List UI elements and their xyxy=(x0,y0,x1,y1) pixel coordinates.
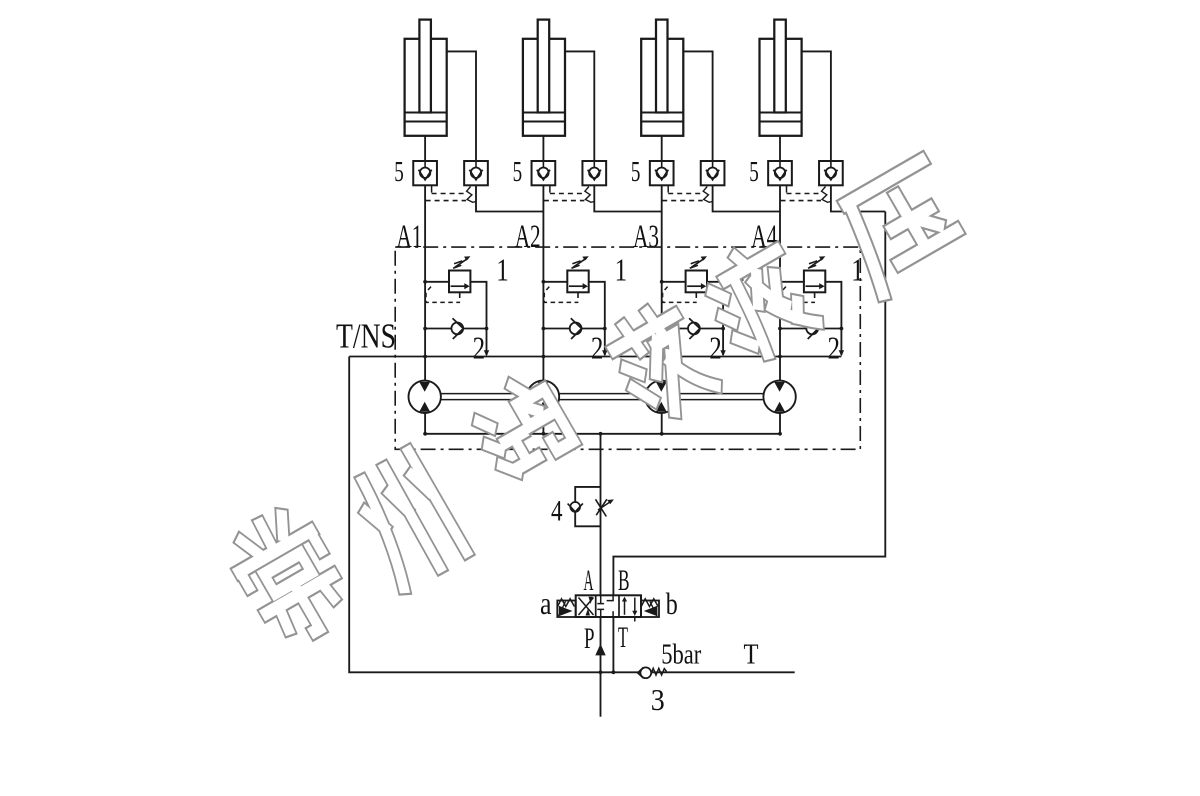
motor M4 xyxy=(763,381,795,413)
junction dot bottom line (group 4) xyxy=(778,432,782,436)
cylinder CY2 body xyxy=(523,39,565,136)
wire: check valve 2 line (group 1) xyxy=(425,328,486,330)
relief valve 1 (group 3) adjustment spring arrow xyxy=(690,265,698,268)
wire: CY1 rod-side tap right and down xyxy=(447,51,476,161)
svg-text:T: T xyxy=(618,621,628,654)
wire: relief valve inlet (group 2) xyxy=(543,281,567,283)
svg-text:A1: A1 xyxy=(396,219,422,255)
junction dots check line (group 2) xyxy=(542,327,546,331)
wire: CY3 bottom port down xyxy=(661,136,663,161)
svg-text:5: 5 xyxy=(513,156,523,188)
wire: A4 line down from left check valve xyxy=(779,185,781,380)
relief valve 1 (group 1) internal arrow xyxy=(451,285,465,287)
junction dot P crossing xyxy=(599,670,603,674)
wire: P line with pump arrow xyxy=(600,617,602,717)
pilot dashed lines between check valves (group 3) xyxy=(667,185,669,192)
junction dot bottom line (group 1) xyxy=(423,432,427,436)
directional valve middle cell blocked ports xyxy=(597,596,604,604)
check valve 5 left box (group 2) xyxy=(532,161,556,185)
wire: motor M3 bottom xyxy=(661,413,663,434)
backpressure valve 3 xyxy=(640,667,651,678)
directional valve dividers xyxy=(595,595,597,617)
svg-text:2: 2 xyxy=(709,329,722,365)
check valve 5 left box (group 4) xyxy=(768,161,792,185)
relief valve 1 (group 3) pilot dashed line xyxy=(663,287,697,303)
svg-text:B: B xyxy=(618,564,630,597)
cylinder CY4 body xyxy=(760,39,802,136)
wire: T line from valve to tank bus xyxy=(612,617,614,673)
wire: CY1 bottom port down xyxy=(424,136,426,161)
directional valve right cell arrows xyxy=(624,600,626,615)
wire: group 1 right check valve down and right to A2 line xyxy=(476,185,543,211)
arrow: right vertical into bus (group 4) xyxy=(839,350,844,356)
relief valve 1 (group 1) box xyxy=(449,271,470,293)
cylinder CY1 body xyxy=(405,39,447,136)
boundary dash-dot box xyxy=(395,247,860,449)
cylinder CY3 body xyxy=(641,39,683,136)
wire: relief valve inlet (group 4) xyxy=(780,281,804,283)
svg-text:5bar: 5bar xyxy=(661,639,701,671)
svg-text:P: P xyxy=(584,622,595,655)
wire: motor bottom common line xyxy=(425,433,780,435)
svg-text:1: 1 xyxy=(615,252,628,288)
relief valve 1 (group 2) drain stub xyxy=(577,292,579,298)
valve 4 bypass loop xyxy=(575,487,600,526)
arrow: right vertical into bus (group 3) xyxy=(720,350,725,356)
check valve 2 (group 4) xyxy=(806,323,818,335)
relief valve 1 (group 3) box xyxy=(686,271,707,293)
junction dot center outlet xyxy=(599,432,603,436)
svg-text:5: 5 xyxy=(394,156,404,188)
directional valve left cell crossed arrows xyxy=(579,598,594,616)
cylinder CY3 piston lines xyxy=(641,112,683,114)
junction dot bus (group 2) xyxy=(542,355,546,359)
arrow: right vertical into bus (group 1) xyxy=(484,350,489,356)
check valve 2 (group 3) xyxy=(688,323,700,335)
watermark character ci 茨 xyxy=(605,302,717,424)
junction dots check line (group 4) xyxy=(778,327,782,331)
relief valve 1 (group 4) pilot dashed line xyxy=(781,287,815,303)
pilot dashed lines between check valves (group 4) xyxy=(786,185,788,192)
svg-text:1: 1 xyxy=(851,252,864,288)
junction dot bottom line (group 2) xyxy=(542,432,546,436)
svg-text:a: a xyxy=(540,585,552,621)
check valve 5 right box (group 2) xyxy=(582,161,606,185)
svg-text:3: 3 xyxy=(651,682,665,717)
relief valve 1 (group 4) drain stub xyxy=(814,292,816,298)
cylinder CY4 rod xyxy=(774,20,786,113)
relief valve 1 (group 2) box xyxy=(567,271,588,293)
svg-text:T/NS: T/NS xyxy=(336,316,396,355)
wire: A1 line down from left check valve xyxy=(424,185,426,380)
relief valve 1 (group 2) pilot dashed line xyxy=(544,287,578,303)
wire: CY3 rod-side tap right and down xyxy=(683,51,712,161)
pilot dashed lines between check valves (group 1) xyxy=(431,185,433,192)
wire: CY4 rod-side tap right and down xyxy=(802,51,831,161)
cylinder CY1 rod xyxy=(419,20,431,113)
wire: center line from motors down to valve 4 and valve A port xyxy=(600,434,602,597)
wire: check valve 2 line (group 4) xyxy=(780,328,841,330)
svg-text:2: 2 xyxy=(828,329,841,365)
wire: CY2 bottom port down xyxy=(542,136,544,161)
check valve 2 (group 2) xyxy=(570,323,582,335)
wire: check valve 2 line (group 2) xyxy=(543,328,604,330)
svg-text:5: 5 xyxy=(749,156,759,188)
relief valve 1 (group 3) drain stub xyxy=(695,292,697,298)
svg-text:4: 4 xyxy=(551,494,563,527)
wire: T/NS bus line xyxy=(349,356,841,358)
svg-text:1: 1 xyxy=(496,252,509,288)
junction dot T joining xyxy=(612,670,616,674)
svg-text:T: T xyxy=(744,639,759,671)
relief valve 1 (group 1) drain stub xyxy=(459,292,461,298)
svg-text:A: A xyxy=(584,564,594,597)
junction dot bus (group 4) xyxy=(778,355,782,359)
cylinder CY4 piston lines xyxy=(760,112,802,114)
junction dots check line (group 3) xyxy=(660,327,664,331)
watermark character zhou 州 xyxy=(346,452,466,587)
check valve 5 right box (group 3) xyxy=(701,161,725,185)
check valve 5 left box (group 1) xyxy=(413,161,437,185)
wire: group 4 right check valve down and right to far-right line xyxy=(831,185,885,211)
watermark character chang 常 xyxy=(224,504,356,649)
junction dot bus (group 3) xyxy=(660,355,664,359)
directional valve body xyxy=(576,595,641,617)
wire: relief valve inlet (group 1) xyxy=(425,281,449,283)
svg-text:2: 2 xyxy=(591,329,604,365)
wire: relief valve outlet to right vertical (group 2) xyxy=(589,282,605,355)
wire: motor M2 bottom xyxy=(542,413,544,434)
junction dot relief inlet (group 2) xyxy=(542,280,546,284)
svg-text:A3: A3 xyxy=(633,219,659,255)
junction dot bottom line (group 3) xyxy=(660,432,664,436)
check valve 5 right box (group 4) xyxy=(819,161,843,185)
cylinder CY3 rod xyxy=(656,20,668,113)
motor M1 xyxy=(409,381,441,413)
wire: left return line down and bottom tank bus xyxy=(349,357,795,673)
relief valve 1 (group 2) internal arrow xyxy=(569,285,583,287)
wire: relief valve outlet to right vertical (group 1) xyxy=(470,282,486,355)
svg-text:b: b xyxy=(666,586,678,621)
solenoid b box xyxy=(641,601,659,618)
check valve 5 right box (group 1) xyxy=(464,161,488,185)
relief valve 1 (group 4) internal arrow xyxy=(806,285,820,287)
wire: motor shaft double line xyxy=(441,393,765,395)
wire: relief valve outlet to right vertical (group 4) xyxy=(825,282,841,355)
wire: A3 line down from left check valve xyxy=(661,185,663,380)
relief valve 1 (group 1) adjustment spring arrow xyxy=(453,265,461,268)
wire: relief valve inlet (group 3) xyxy=(662,281,686,283)
svg-text:A2: A2 xyxy=(515,219,541,255)
junction dots check line (group 1) xyxy=(423,327,427,331)
svg-text:5: 5 xyxy=(631,156,641,188)
wire: check valve 2 line (group 3) xyxy=(662,328,723,330)
cylinder CY1 piston lines xyxy=(405,112,447,114)
wire: group 2 right check valve down and right to A3 line xyxy=(594,185,661,211)
motor M2 xyxy=(527,381,559,413)
check valve 2 (group 1) xyxy=(451,323,463,335)
wire: motor M4 bottom xyxy=(779,413,781,434)
wire: group 3 right check valve down and right to A4 line xyxy=(713,185,780,211)
junction dot bus (group 1) xyxy=(423,355,427,359)
wire: B line up right and to group4 line xyxy=(613,212,885,597)
check valve 5 left box (group 3) xyxy=(650,161,674,185)
svg-text:2: 2 xyxy=(473,329,486,365)
cylinder CY2 piston lines xyxy=(523,112,565,114)
motor M3 xyxy=(645,381,677,413)
relief valve 1 (group 3) internal arrow xyxy=(687,285,701,287)
relief valve 1 (group 1) pilot dashed line xyxy=(426,287,460,303)
watermark character ya 压 xyxy=(835,161,970,294)
valve 4 bypass check valve xyxy=(570,502,580,512)
solenoid a box xyxy=(557,601,575,618)
wire: CY4 bottom port down xyxy=(779,136,781,161)
wire: motor M1 bottom xyxy=(424,413,426,434)
wire: CY2 rod-side tap right and down xyxy=(565,51,594,161)
junction dot relief inlet (group 1) xyxy=(423,280,427,284)
junction dot relief inlet (group 4) xyxy=(778,280,782,284)
watermark character ye 液 xyxy=(700,238,819,364)
arrow: right vertical into bus (group 2) xyxy=(602,350,607,356)
relief valve 1 (group 2) adjustment spring arrow xyxy=(571,265,579,268)
watermark character hong 鸿 xyxy=(469,373,574,478)
wire: A2 line down from left check valve xyxy=(542,185,544,380)
pilot dashed lines between check valves (group 2) xyxy=(549,185,551,192)
wire: relief valve outlet to right vertical (group 3) xyxy=(707,282,723,355)
cylinder CY2 rod xyxy=(538,20,550,113)
relief valve 1 (group 4) adjustment spring arrow xyxy=(808,265,816,268)
junction dot relief inlet (group 3) xyxy=(660,280,664,284)
relief valve 1 (group 4) box xyxy=(804,271,825,293)
valve 4 throttle symbol xyxy=(596,499,607,516)
